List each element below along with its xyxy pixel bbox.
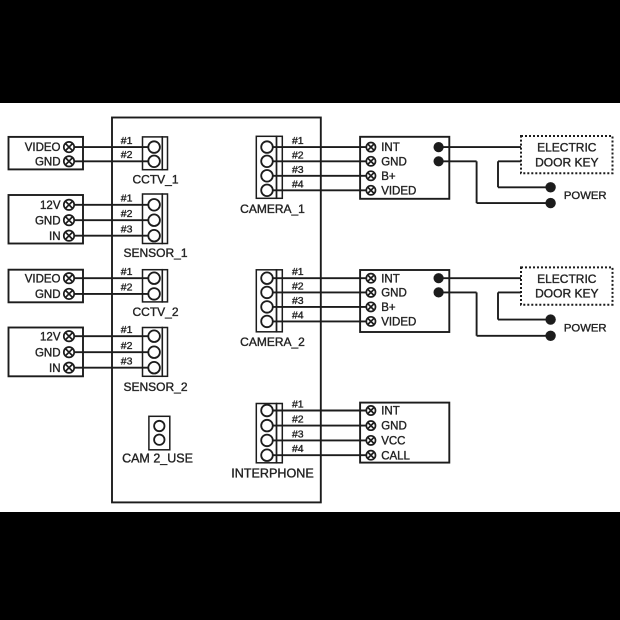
svg-text:#2: #2 (121, 149, 133, 161)
svg-text:ELECTRIC: ELECTRIC (537, 272, 597, 286)
svg-text:#4: #4 (292, 443, 304, 455)
svg-text:#2: #2 (121, 282, 133, 294)
svg-text:12V: 12V (40, 331, 61, 343)
svg-text:GND: GND (35, 156, 61, 168)
svg-text:CAMERA_1: CAMERA_1 (240, 202, 305, 216)
svg-text:#3: #3 (292, 164, 304, 176)
svg-text:#3: #3 (292, 428, 304, 440)
svg-text:#1: #1 (121, 266, 133, 278)
svg-text:GND: GND (381, 288, 407, 300)
svg-text:VIDED: VIDED (381, 317, 416, 329)
svg-text:#3: #3 (121, 223, 133, 235)
svg-text:POWER: POWER (564, 323, 607, 335)
svg-text:CALL: CALL (381, 450, 410, 462)
svg-text:CCTV_2: CCTV_2 (132, 305, 178, 319)
svg-text:12V: 12V (40, 200, 61, 212)
svg-text:VIDEO: VIDEO (25, 142, 61, 154)
svg-text:CAM 2_USE: CAM 2_USE (122, 452, 193, 466)
svg-text:CCTV_1: CCTV_1 (132, 173, 178, 187)
svg-text:#1: #1 (292, 266, 304, 278)
svg-text:POWER: POWER (564, 190, 607, 202)
svg-text:IN: IN (49, 231, 61, 243)
svg-text:#3: #3 (292, 295, 304, 307)
svg-text:#2: #2 (121, 208, 133, 220)
svg-text:VIDEO: VIDEO (25, 273, 61, 285)
svg-text:INT: INT (381, 406, 400, 418)
svg-text:#1: #1 (121, 135, 133, 147)
svg-text:B+: B+ (381, 171, 396, 183)
svg-text:#1: #1 (292, 135, 304, 147)
svg-text:INT: INT (381, 273, 400, 285)
svg-text:#1: #1 (292, 399, 304, 411)
svg-text:GND: GND (35, 215, 61, 227)
svg-text:VIDED: VIDED (381, 185, 416, 197)
svg-text:#2: #2 (292, 149, 304, 161)
svg-text:SENSOR_2: SENSOR_2 (123, 380, 187, 394)
svg-text:GND: GND (35, 289, 61, 301)
svg-text:CAMERA_2: CAMERA_2 (240, 335, 305, 349)
svg-text:SENSOR_1: SENSOR_1 (123, 246, 187, 260)
svg-text:INT: INT (381, 142, 400, 154)
svg-text:GND: GND (381, 421, 407, 433)
svg-text:#4: #4 (292, 178, 304, 190)
svg-text:B+: B+ (381, 302, 396, 314)
svg-text:#1: #1 (121, 324, 133, 336)
svg-text:#3: #3 (121, 355, 133, 367)
svg-text:#4: #4 (292, 309, 304, 321)
svg-text:GND: GND (35, 347, 61, 359)
svg-text:DOOR KEY: DOOR KEY (535, 155, 598, 169)
svg-text:DOOR KEY: DOOR KEY (535, 287, 598, 301)
svg-text:#2: #2 (292, 280, 304, 292)
svg-text:INTERPHONE: INTERPHONE (231, 466, 314, 480)
svg-text:VCC: VCC (381, 436, 405, 448)
svg-text:ELECTRIC: ELECTRIC (537, 141, 597, 155)
svg-text:IN: IN (49, 363, 61, 375)
svg-text:GND: GND (381, 156, 407, 168)
svg-text:#1: #1 (121, 193, 133, 205)
svg-text:#2: #2 (121, 340, 133, 352)
svg-text:#2: #2 (292, 414, 304, 426)
